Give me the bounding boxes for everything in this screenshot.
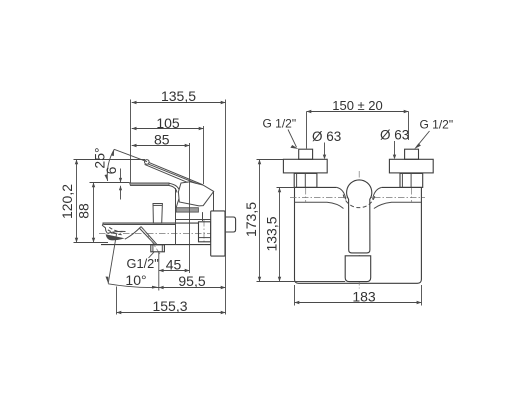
svg-text:Ø 63: Ø 63 <box>380 128 409 143</box>
svg-text:120,2: 120,2 <box>59 184 75 219</box>
svg-text:G1/2": G1/2" <box>127 256 159 271</box>
svg-text:Ø 63: Ø 63 <box>312 129 341 144</box>
svg-text:133,5: 133,5 <box>264 216 280 251</box>
svg-text:G 1/2": G 1/2" <box>263 117 297 131</box>
svg-text:45: 45 <box>166 256 182 272</box>
svg-text:6: 6 <box>103 166 119 174</box>
svg-text:105: 105 <box>156 115 180 131</box>
svg-text:155,3: 155,3 <box>152 298 187 314</box>
svg-text:10°: 10° <box>125 272 146 288</box>
svg-text:173,5: 173,5 <box>243 202 259 237</box>
svg-text:95,5: 95,5 <box>178 273 205 289</box>
svg-text:88: 88 <box>76 203 92 219</box>
svg-text:135,5: 135,5 <box>161 88 196 104</box>
svg-text:85: 85 <box>154 132 170 148</box>
svg-text:150 ± 20: 150 ± 20 <box>332 98 383 113</box>
svg-text:25°: 25° <box>92 147 108 168</box>
svg-text:183: 183 <box>352 288 376 304</box>
svg-text:G 1/2": G 1/2" <box>420 118 454 132</box>
